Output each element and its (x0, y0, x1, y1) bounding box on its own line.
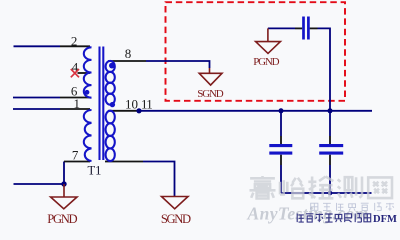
svg-text:PGND: PGND (47, 212, 77, 226)
svg-text:DFM: DFM (373, 214, 397, 225)
svg-text:10: 10 (125, 97, 138, 112)
svg-text:T1: T1 (88, 164, 102, 178)
svg-text:PGND: PGND (253, 56, 279, 68)
svg-text:SGND: SGND (197, 88, 223, 100)
svg-text:11: 11 (141, 97, 152, 112)
svg-text:8: 8 (125, 46, 132, 61)
svg-text:7: 7 (72, 147, 79, 162)
svg-text:SGND: SGND (161, 212, 191, 226)
svg-text:1: 1 (74, 96, 81, 111)
svg-text:2: 2 (71, 33, 78, 48)
